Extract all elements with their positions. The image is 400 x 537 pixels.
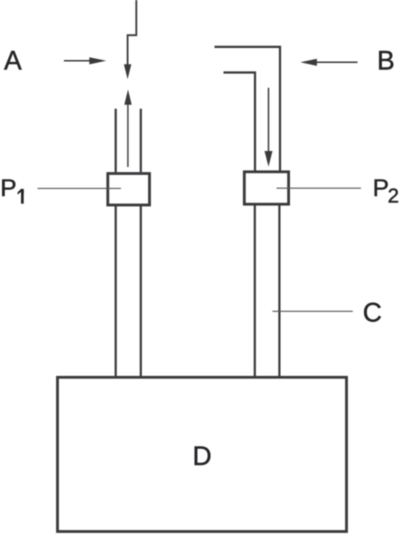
up arrow inside left tube [127, 104, 129, 168]
arrow B (pointing left) [300, 59, 357, 66]
valve box P1 [108, 174, 150, 206]
svg-text:D: D [193, 441, 212, 471]
left tube upper wall (right) [140, 109, 142, 173]
inlet pipe to left tube (jogged line from top) [128, 0, 137, 65]
svg-text:B: B [377, 46, 395, 76]
right pipe outer wall (top horizontal + right vertical) [215, 47, 281, 172]
tank box D [58, 377, 347, 531]
down arrowhead on inlet [124, 64, 131, 79]
svg-text:C: C [363, 297, 382, 327]
arrow A (pointing right) [64, 57, 106, 64]
left tube upper wall (left) [115, 109, 117, 173]
svg-text:A: A [4, 46, 22, 76]
leader line for P2 [277, 187, 362, 189]
right tube lower wall (right) [278, 204, 280, 377]
down arrow inside right tube [268, 88, 270, 152]
svg-text:P: P [373, 175, 389, 202]
svg-text:P: P [0, 175, 16, 202]
right tube lower wall (left) [254, 204, 256, 377]
left tube lower wall (left) [115, 205, 117, 377]
leader line for P1 [38, 187, 122, 189]
left tube lower wall (right) [140, 205, 142, 377]
right pipe inner wall (short horizontal + left vertical) [224, 73, 256, 172]
leader line for C [272, 310, 352, 312]
svg-text:2: 2 [388, 185, 399, 208]
valve box P2 [244, 172, 288, 204]
